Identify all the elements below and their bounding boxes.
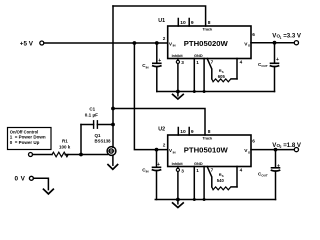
svg-text:100 k: 100 k xyxy=(59,144,71,149)
svg-text:R1: R1 xyxy=(62,138,68,143)
svg-text:GND: GND xyxy=(194,161,203,166)
svg-text:U2: U2 xyxy=(158,126,165,132)
svg-text:Inhibit: Inhibit xyxy=(172,162,184,166)
svg-text:7: 7 xyxy=(211,60,214,65)
svg-text:2: 2 xyxy=(163,143,166,148)
svg-text:540: 540 xyxy=(217,178,225,183)
svg-text:4: 4 xyxy=(240,60,243,65)
svg-text:1: 1 xyxy=(280,36,282,40)
svg-text:IN: IN xyxy=(146,170,149,174)
svg-text:+5 V: +5 V xyxy=(20,40,34,47)
svg-text:7: 7 xyxy=(211,168,214,173)
svg-text:9: 9 xyxy=(191,20,194,26)
svg-text:GND: GND xyxy=(194,53,203,58)
svg-text:+: + xyxy=(157,162,160,168)
svg-text:6: 6 xyxy=(252,32,255,37)
svg-text:8: 8 xyxy=(208,129,211,135)
svg-text:=1.8 V: =1.8 V xyxy=(283,142,302,149)
svg-text:Track: Track xyxy=(203,28,214,32)
svg-text:1 = Power Down: 1 = Power Down xyxy=(10,135,46,140)
svg-text:+: + xyxy=(158,58,161,64)
svg-text:U1: U1 xyxy=(158,18,165,24)
svg-text:1: 1 xyxy=(196,168,199,173)
svg-text:OUT: OUT xyxy=(261,64,268,68)
svg-text:=3.3 V: =3.3 V xyxy=(283,33,302,40)
svg-text:Q1: Q1 xyxy=(95,133,102,138)
svg-text:605: 605 xyxy=(218,74,226,79)
svg-text:+: + xyxy=(276,57,279,63)
svg-text:2: 2 xyxy=(280,145,282,149)
svg-text:9: 9 xyxy=(191,129,194,135)
svg-text:0 V: 0 V xyxy=(15,176,26,183)
svg-text:3: 3 xyxy=(181,60,184,65)
svg-text:Inhibit: Inhibit xyxy=(172,54,184,58)
svg-text:BSS138: BSS138 xyxy=(95,139,112,144)
svg-text:IN: IN xyxy=(146,65,149,69)
svg-text:PTH05010W: PTH05010W xyxy=(184,146,229,155)
svg-text:C1: C1 xyxy=(89,107,95,112)
svg-text:0 = Power Up: 0 = Power Up xyxy=(10,140,40,145)
svg-text:8: 8 xyxy=(208,20,211,26)
svg-text:OUT: OUT xyxy=(261,174,268,178)
svg-text:6: 6 xyxy=(252,138,255,143)
svg-text:1: 1 xyxy=(196,60,199,65)
svg-text:IN: IN xyxy=(173,44,176,48)
svg-text:+: + xyxy=(277,164,280,170)
svg-text:IN: IN xyxy=(173,151,176,155)
svg-text:2: 2 xyxy=(163,36,166,41)
svg-text:10: 10 xyxy=(180,129,186,135)
svg-text:4: 4 xyxy=(240,168,243,173)
svg-text:10: 10 xyxy=(180,20,186,26)
svg-text:3: 3 xyxy=(181,168,184,173)
svg-text:Track: Track xyxy=(203,137,214,141)
svg-text:PTH05020W: PTH05020W xyxy=(184,39,229,48)
svg-text:0.1 µF: 0.1 µF xyxy=(85,113,98,118)
